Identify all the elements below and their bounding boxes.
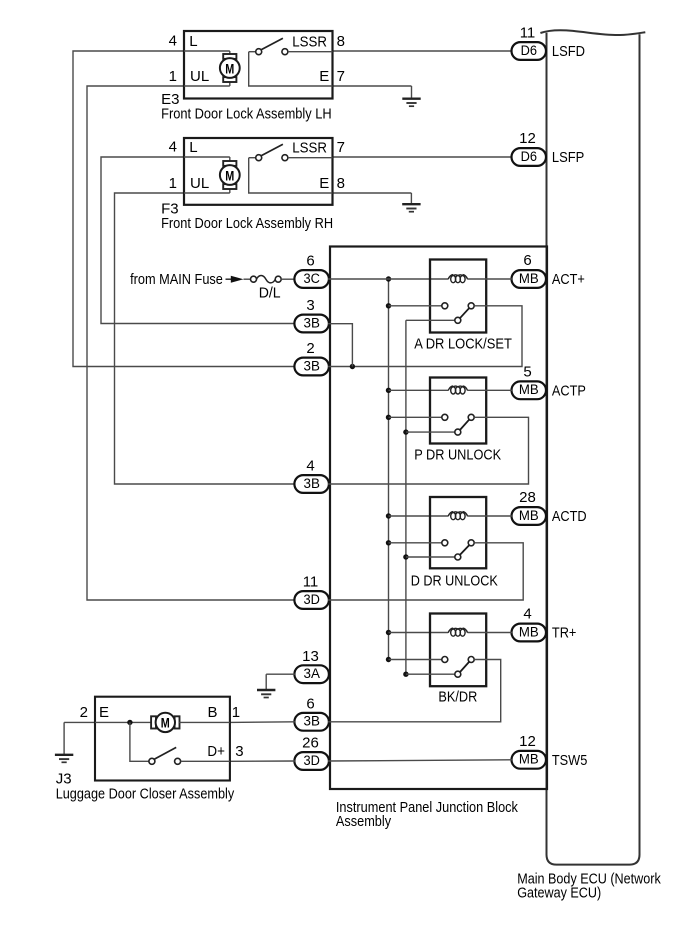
- svg-text:1: 1: [232, 704, 240, 721]
- wire bus to P DR UNLOCK switch NC contact: [389, 416, 442, 418]
- svg-text:1: 1: [169, 175, 177, 192]
- connector D6 pin 12 (LSFP): [512, 148, 547, 166]
- junction dot bus2 y557: [403, 554, 408, 559]
- svg-text:4: 4: [169, 139, 177, 156]
- svg-text:MB: MB: [519, 624, 539, 640]
- wire RH lock pin 1 (UL) to junction 3B pin 4: [115, 193, 296, 484]
- svg-text:3D: 3D: [304, 753, 320, 769]
- luggage door closer assembly box J3: [95, 697, 230, 781]
- label Main Body ECU (Network Gateway ECU): [517, 871, 661, 902]
- wire bus to BK/DR coil: [389, 632, 449, 634]
- relay D DR UNLOCK switch: [442, 540, 474, 560]
- svg-text:D6: D6: [521, 43, 537, 59]
- wire LH L row to motor: [184, 50, 230, 52]
- wire luggage motor to pin B: [179, 721, 230, 723]
- svg-text:28: 28: [519, 489, 536, 506]
- wire BK/DR coil to MB: [468, 632, 513, 634]
- svg-text:11: 11: [303, 574, 319, 591]
- svg-text:MB: MB: [519, 508, 539, 524]
- svg-text:A DR LOCK/SET: A DR LOCK/SET: [414, 336, 512, 353]
- svg-text:TR+: TR+: [552, 625, 577, 642]
- svg-text:6: 6: [306, 253, 314, 270]
- bus wire from 3C (+B) vertical: [388, 279, 390, 660]
- wire luggage pin 1 (B) to 3B pin 6: [230, 721, 295, 724]
- ground for luggage pin 2: [55, 722, 73, 762]
- svg-text:D/L: D/L: [259, 285, 281, 302]
- wire LH pin 7 (E) to ground: [333, 85, 412, 87]
- svg-text:4: 4: [306, 458, 314, 475]
- svg-text:E: E: [319, 68, 329, 85]
- wire A DR LOCK/SET coil to MB: [468, 278, 513, 280]
- relay A DR LOCK/SET box: [430, 260, 486, 333]
- wire luggage switch to pin D+: [181, 760, 230, 762]
- relay D DR UNLOCK coil: [448, 512, 467, 520]
- junction dot bus1 y659.5: [386, 657, 391, 662]
- svg-text:D6: D6: [521, 149, 537, 165]
- svg-text:Front Door Lock Assembly LH: Front Door Lock Assembly LH: [161, 105, 332, 122]
- ground for 3A pin 13: [257, 674, 275, 697]
- svg-text:3D: 3D: [304, 592, 320, 608]
- wire fuse to 3C: [281, 278, 295, 280]
- svg-text:M: M: [225, 60, 234, 76]
- connector 3B pin 4: [294, 475, 329, 493]
- connector 3D pin 26: [294, 752, 329, 770]
- wire luggage E row to motor: [95, 721, 151, 723]
- junction dot bus1 y390.3: [386, 388, 391, 393]
- junction dot bus1 y632.5: [386, 630, 391, 635]
- svg-text:3B: 3B: [304, 476, 320, 492]
- wire A DR LOCK/SET switch output to 3B pin 2: [328, 306, 522, 367]
- wire D DR UNLOCK switch output to 3D pin 11: [328, 543, 523, 600]
- junction dot bus2 y674.2: [403, 672, 408, 677]
- svg-text:11: 11: [520, 24, 536, 41]
- svg-text:3A: 3A: [304, 666, 321, 682]
- wire bus2 to D DR UNLOCK common contact: [406, 556, 455, 558]
- svg-text:D DR UNLOCK: D DR UNLOCK: [411, 573, 498, 590]
- svg-text:M: M: [225, 167, 234, 183]
- ground for RH lock pin 8: [402, 193, 420, 212]
- wire RH lock pin 4 (L) to junction 3B pin 3: [101, 157, 295, 324]
- svg-text:2: 2: [80, 704, 88, 721]
- wire bus to D DR UNLOCK switch NC contact: [389, 542, 442, 544]
- svg-text:MB: MB: [519, 382, 539, 398]
- svg-text:D+: D+: [207, 743, 225, 760]
- svg-text:Assembly: Assembly: [336, 813, 392, 830]
- wire bus to D DR UNLOCK coil: [389, 515, 449, 517]
- relay D DR UNLOCK box: [430, 497, 486, 568]
- relay BK/DR box: [430, 614, 486, 687]
- connector MB pin 28 (ACTD): [512, 507, 547, 525]
- motor in luggage door closer: [151, 713, 179, 732]
- wire BK/DR switch output to 3B pin 6: [328, 660, 501, 722]
- svg-text:13: 13: [302, 648, 319, 665]
- wire 3D pin 26 to MB pin 12 (TSW5): [328, 760, 512, 761]
- svg-text:P DR UNLOCK: P DR UNLOCK: [414, 446, 501, 463]
- connector 3B pin 2: [294, 358, 329, 376]
- svg-text:8: 8: [337, 175, 345, 192]
- svg-text:Front Door Lock Assembly RH: Front Door Lock Assembly RH: [161, 215, 333, 232]
- junction dot bus1 y305.8: [386, 303, 391, 308]
- wire LH lock pin 4 (L) to junction 3B pin 2: [73, 51, 295, 367]
- svg-text:7: 7: [337, 68, 345, 85]
- wire arrow to fuse: [244, 278, 251, 280]
- svg-text:L: L: [189, 33, 197, 50]
- instrument panel junction block assembly box: [330, 247, 547, 790]
- relay P DR UNLOCK switch: [442, 414, 474, 435]
- junction dot 3B pin2/pin3 tie: [350, 364, 355, 369]
- svg-text:LSFD: LSFD: [552, 43, 585, 60]
- svg-text:L: L: [189, 139, 197, 156]
- wire bus to BK/DR switch NC contact: [389, 659, 442, 661]
- wire RH pin 7 to ECU D6 pin 12: [333, 156, 513, 158]
- relay BK/DR switch: [442, 657, 474, 678]
- svg-text:4: 4: [523, 606, 531, 623]
- svg-text:B: B: [208, 704, 218, 721]
- wire luggage pin 2 (E) to ground: [64, 721, 95, 723]
- svg-text:3B: 3B: [304, 714, 320, 730]
- svg-text:6: 6: [523, 252, 531, 269]
- connector 3B pin 6: [294, 713, 329, 731]
- wire bus2 to P DR UNLOCK common contact: [406, 431, 455, 433]
- motor in LH lock: [220, 51, 240, 86]
- connector MB pin 5 (ACTP): [512, 381, 547, 399]
- svg-text:7: 7: [337, 139, 345, 156]
- svg-text:ACTP: ACTP: [552, 383, 586, 400]
- wire RH L row to motor: [184, 156, 230, 158]
- relay BK/DR coil: [448, 628, 467, 636]
- svg-text:LSFP: LSFP: [552, 149, 584, 166]
- connector MB pin 12 (TSW5): [512, 751, 547, 769]
- svg-text:Luggage Door Closer Assembly: Luggage Door Closer Assembly: [56, 785, 235, 802]
- svg-text:TSW5: TSW5: [552, 752, 587, 769]
- relay A DR LOCK/SET switch: [442, 303, 474, 324]
- label Instrument Panel Junction Block Assembly: [336, 799, 518, 830]
- svg-text:LSSR: LSSR: [292, 140, 327, 157]
- wire bus to P DR UNLOCK coil: [389, 389, 449, 391]
- svg-text:3B: 3B: [304, 315, 320, 331]
- switch in luggage door closer: [149, 747, 181, 764]
- junction dot bus2 y432.1: [403, 429, 408, 434]
- wire RH UL row to motor: [184, 192, 230, 194]
- junction dot bus1 y279: [386, 276, 391, 281]
- wire D DR UNLOCK coil to MB: [468, 515, 513, 517]
- wire LH lock pin 1 (UL) to junction 3D pin 11: [87, 86, 295, 600]
- connector 3A pin 13: [294, 665, 329, 683]
- fuse D/L: [251, 276, 282, 283]
- junction dot bus1 y516: [386, 513, 391, 518]
- svg-text:BK/DR: BK/DR: [438, 688, 477, 705]
- junction dot luggage motor/switch branch: [127, 720, 132, 725]
- connector 3C pin 6: [294, 270, 329, 288]
- front door lock assembly LH box E3: [184, 31, 333, 99]
- svg-text:1: 1: [169, 68, 177, 85]
- junction dot bus1 y417.3: [386, 415, 391, 420]
- svg-text:Gateway ECU): Gateway ECU): [517, 884, 601, 901]
- junction dot bus1 y542.8: [386, 540, 391, 545]
- wire P DR UNLOCK switch output to 3B pin 4: [328, 417, 529, 484]
- switch LSSR in LH lock: [249, 38, 333, 86]
- svg-text:26: 26: [302, 735, 319, 752]
- wire luggage pin 3 (D+) to 3D pin 26: [230, 760, 295, 762]
- svg-text:from MAIN Fuse: from MAIN Fuse: [130, 271, 223, 288]
- wire P DR UNLOCK coil to MB: [468, 389, 513, 391]
- svg-text:UL: UL: [190, 175, 209, 192]
- wire 3C row to A DR LOCK/SET coil: [328, 278, 448, 280]
- wire branch to luggage switch: [130, 722, 149, 761]
- svg-text:6: 6: [306, 695, 314, 712]
- relay A DR LOCK/SET coil: [448, 275, 467, 283]
- ground for LH lock pin 7: [402, 86, 420, 106]
- svg-text:3B: 3B: [304, 358, 320, 374]
- bus wire switch commons vertical: [405, 320, 407, 674]
- svg-text:8: 8: [337, 33, 345, 50]
- connector MB pin 4 (TR+): [512, 624, 547, 642]
- wire 3B pin 3 to pin 2 row: [328, 324, 352, 367]
- wire RH pin 8 (E) to ground: [333, 192, 412, 194]
- wire bus2 to A DR LOCK/SET common contact: [406, 319, 455, 321]
- svg-text:UL: UL: [190, 68, 209, 85]
- svg-text:E: E: [99, 704, 109, 721]
- wire bus2 to BK/DR common contact: [406, 673, 455, 675]
- motor in RH lock: [220, 157, 240, 193]
- arrow from MAIN Fuse: [226, 276, 244, 283]
- wire LH pin 8 to ECU D6 pin 11: [333, 50, 513, 52]
- relay P DR UNLOCK box: [430, 378, 486, 444]
- front door lock assembly RH box F3: [184, 138, 333, 205]
- svg-text:4: 4: [169, 33, 177, 50]
- connector MB pin 6 (ACT+): [512, 270, 547, 288]
- svg-text:12: 12: [519, 733, 536, 750]
- svg-text:ACTD: ACTD: [552, 508, 587, 525]
- svg-text:3: 3: [306, 297, 314, 314]
- svg-text:3C: 3C: [304, 271, 320, 287]
- connector 3B pin 3: [294, 315, 329, 333]
- svg-text:5: 5: [523, 364, 531, 381]
- wire LH UL row to motor: [184, 85, 230, 87]
- svg-text:M: M: [161, 715, 170, 731]
- switch LSSR in RH lock: [249, 144, 333, 193]
- Main Body ECU (Network Gateway ECU) outline with break line: [540, 30, 645, 864]
- wire bus to A DR LOCK/SET switch NC contact: [389, 305, 442, 307]
- svg-text:12: 12: [519, 130, 536, 147]
- svg-text:2: 2: [306, 340, 314, 357]
- relay P DR UNLOCK coil: [448, 386, 467, 394]
- svg-text:LSSR: LSSR: [292, 34, 327, 51]
- svg-text:3: 3: [235, 743, 243, 760]
- connector D6 pin 11 (LSFD): [512, 42, 547, 60]
- svg-text:MB: MB: [519, 752, 539, 768]
- svg-text:ACT+: ACT+: [552, 271, 585, 288]
- svg-text:MB: MB: [519, 271, 539, 287]
- svg-text:E: E: [319, 175, 329, 192]
- connector 3D pin 11: [294, 591, 329, 609]
- wire 3A pin 13 to ground: [266, 673, 295, 675]
